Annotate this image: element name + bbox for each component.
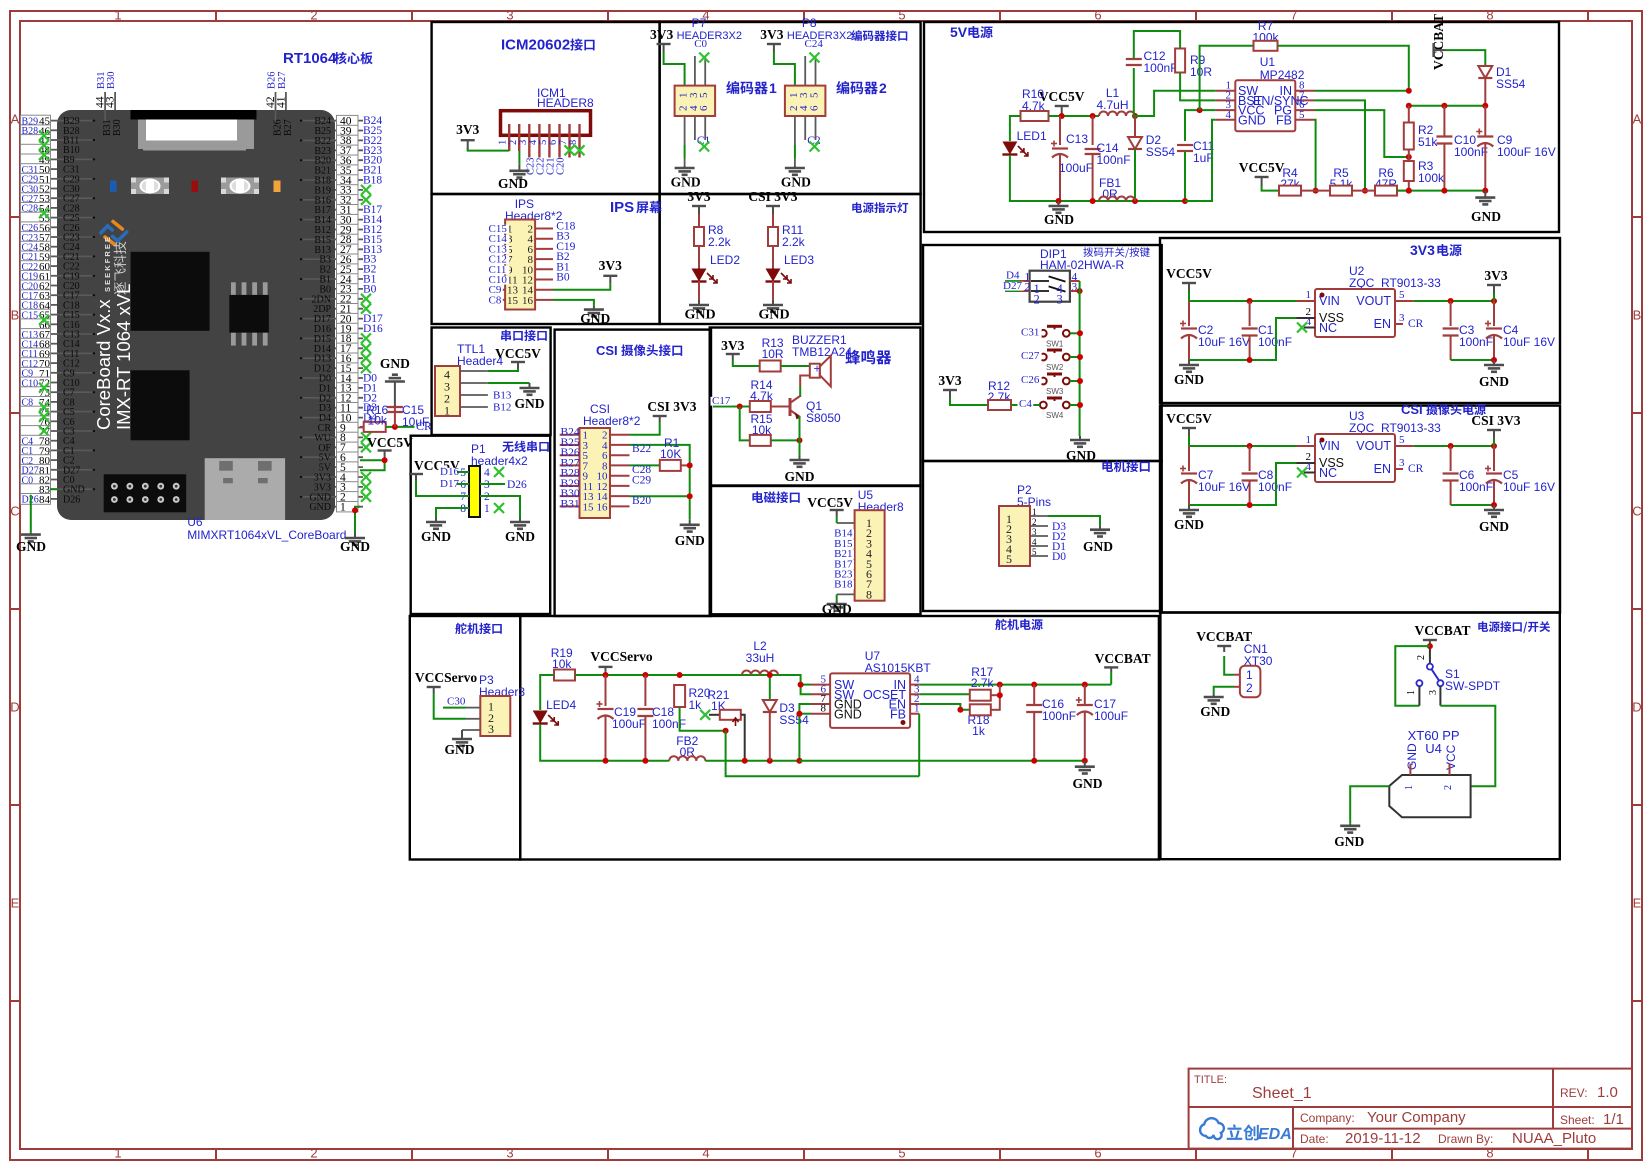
svg-text:10k: 10k	[368, 414, 388, 428]
svg-text:C20: C20	[555, 157, 566, 175]
capacitor C3	[1450, 301, 1452, 326]
wire GND pin4 to rail	[1185, 120, 1216, 201]
svg-text:1.0: 1.0	[1597, 1084, 1618, 1101]
wire EN/SYNC pin7	[1315, 100, 1366, 190]
wire P1 pin2 to ground	[480, 496, 520, 518]
svg-text:2.2k: 2.2k	[708, 235, 732, 249]
U6 top pins 42 41 B26 B27	[275, 110, 277, 121]
svg-text:GND: GND	[1405, 743, 1419, 770]
svg-text:C26: C26	[1021, 374, 1040, 386]
svg-text:C31: C31	[1021, 326, 1039, 338]
svg-text:100nF: 100nF	[1042, 709, 1076, 723]
svg-text:3: 3	[1399, 457, 1405, 469]
title power indicator	[852, 202, 908, 213]
wire TTL1 pin4 to VCC5V	[488, 368, 518, 371]
svg-text:GND: GND	[498, 176, 528, 191]
title encoder interface	[851, 30, 907, 41]
svg-text:D26: D26	[507, 479, 527, 491]
svg-text:B13: B13	[493, 390, 512, 402]
ground DIP bus	[1079, 436, 1081, 440]
svg-text:CSI 3V3: CSI 3V3	[647, 399, 696, 414]
net label B13	[492, 391, 514, 400]
svg-text:100uF: 100uF	[1094, 709, 1128, 723]
svg-text:5: 5	[1006, 552, 1012, 566]
svg-text:B18: B18	[363, 175, 382, 187]
svg-text:VCC5V: VCC5V	[367, 435, 413, 450]
svg-text:VCCBAT: VCCBAT	[1431, 14, 1446, 70]
net label D4 pin1	[1005, 280, 1021, 282]
capacitor C8	[1249, 446, 1251, 471]
svg-text:8: 8	[821, 703, 827, 715]
svg-text:U4: U4	[1425, 741, 1442, 756]
svg-text:RT1064: RT1064	[283, 50, 337, 67]
svg-text:2.2k: 2.2k	[782, 235, 806, 249]
svg-text:EN: EN	[1374, 462, 1391, 476]
resistor R2 51k	[1404, 123, 1414, 150]
section box buzzer	[710, 328, 921, 486]
svg-text:1: 1	[1406, 690, 1417, 695]
wire VSS to bottom rail	[1189, 463, 1297, 505]
svg-text:GND: GND	[781, 175, 811, 190]
svg-text:D: D	[1632, 700, 1641, 715]
wire S1 pin1 loop to VCCBAT	[1395, 646, 1430, 706]
svg-text:D0: D0	[1052, 551, 1066, 563]
svg-text:100k: 100k	[1418, 171, 1445, 185]
wire bottom right rail U3	[1451, 504, 1494, 506]
capacitor C1	[1249, 301, 1251, 326]
svg-text:3V3: 3V3	[687, 189, 710, 204]
svg-text:GND: GND	[834, 708, 862, 722]
ground at 5V bottom rail	[1059, 200, 1186, 202]
section box motor	[923, 461, 1162, 611]
svg-text:LED2: LED2	[710, 253, 740, 267]
svg-text:ICM20602: ICM20602	[501, 37, 570, 54]
svg-text:1: 1	[340, 502, 346, 514]
svg-text:1: 1	[769, 80, 777, 96]
wire SW1 right	[1070, 332, 1080, 334]
capacitor C16 100nF	[1033, 685, 1035, 705]
no-connect X bottom P7	[699, 142, 709, 152]
net label B12	[492, 403, 514, 412]
svg-text:Your Company: Your Company	[1367, 1109, 1466, 1126]
svg-text:GND: GND	[340, 539, 370, 554]
svg-text:2: 2	[310, 8, 317, 23]
svg-text:B: B	[1633, 308, 1642, 323]
svg-text:10uF 16V: 10uF 16V	[1503, 335, 1555, 349]
encoder label 1	[726, 81, 768, 94]
capacitor C19 100uF	[605, 675, 607, 706]
net label D26	[480, 483, 505, 485]
wire VCCBAT to CN1 pin1	[1224, 656, 1234, 675]
net label D16	[440, 471, 469, 473]
capacitor C17 100uF	[1084, 685, 1086, 705]
svg-text:GND: GND	[580, 311, 610, 326]
svg-text:VOUT: VOUT	[1356, 439, 1391, 453]
wire IPS pin14 to 3V3	[553, 284, 610, 290]
svg-text:100uF 16V: 100uF 16V	[1497, 145, 1556, 159]
title DIP switch/keys	[1083, 247, 1149, 258]
LED LED3	[772, 246, 774, 269]
svg-text:GND: GND	[505, 529, 535, 544]
section box 5V power	[924, 22, 1559, 232]
title EM interface	[752, 491, 799, 503]
svg-text:2: 2	[1032, 517, 1037, 527]
wires below P7	[684, 116, 686, 145]
svg-text:GND: GND	[1066, 448, 1096, 463]
ground left U2	[1188, 360, 1190, 365]
section box power switch	[1160, 612, 1559, 859]
svg-text:CoreBoard Vx.x: CoreBoard Vx.x	[93, 299, 114, 430]
diode D1 SS54	[1446, 50, 1485, 65]
wire SW2 right	[1070, 356, 1080, 358]
net label C27	[1020, 356, 1040, 358]
svg-text:GND: GND	[445, 742, 475, 757]
svg-text:1: 1	[1032, 507, 1037, 517]
title power connector/switch	[1478, 621, 1550, 633]
svg-text:ZQC_RT9013-33: ZQC_RT9013-33	[1349, 276, 1441, 290]
svg-text:4.7uH: 4.7uH	[1096, 98, 1128, 112]
capacitor C5	[1493, 446, 1495, 471]
net labels on IPS left pins	[487, 225, 509, 234]
wire IN pin4 to VCCBAT	[919, 684, 1111, 686]
wire R19 to LED4 branch	[540, 675, 554, 710]
svg-text:EN: EN	[1374, 317, 1391, 331]
push button SW4	[1047, 397, 1062, 400]
resistor R11 2.2k	[772, 214, 774, 227]
svg-text:B18: B18	[834, 579, 853, 591]
section box 3V3 power	[1160, 238, 1560, 403]
section box IPS	[432, 194, 660, 324]
wire CSI pin2 to CSI 3V3	[630, 422, 660, 435]
svg-text:CR: CR	[1408, 463, 1424, 475]
module U6 MIMXRT1064xVL_CoreBoard	[57, 110, 335, 520]
svg-text:C8: C8	[489, 294, 502, 306]
svg-text:1: 1	[114, 1146, 121, 1161]
svg-text:2: 2	[1034, 293, 1040, 307]
capacitor C13 100uF	[1059, 116, 1061, 145]
svg-text:2: 2	[1246, 681, 1253, 695]
svg-text:15: 15	[583, 501, 595, 513]
net label D27 pin2	[1005, 290, 1021, 292]
svg-text:16: 16	[522, 295, 534, 307]
svg-text:5: 5	[898, 8, 905, 23]
resistor R9 10R	[1175, 49, 1185, 73]
svg-text:LED1: LED1	[1017, 129, 1047, 143]
no-connect X top right pin P7	[699, 53, 709, 63]
svg-text:C29: C29	[632, 475, 651, 487]
svg-text:B22: B22	[632, 443, 651, 455]
wire PG pin6	[1315, 110, 1409, 157]
svg-text:HEADER3X2: HEADER3X2	[677, 30, 742, 42]
wire VCC5V to P1 pin7	[416, 480, 469, 496]
EasyEDA logo	[1200, 1118, 1224, 1139]
svg-text:VCC5V: VCC5V	[495, 346, 541, 361]
svg-text:3V3: 3V3	[760, 27, 783, 42]
title servo power	[995, 619, 1043, 631]
svg-text:43: 43	[105, 96, 117, 108]
resistor R16 10k	[360, 426, 364, 428]
svg-text:1uF: 1uF	[1193, 151, 1214, 165]
svg-text:E: E	[1633, 896, 1642, 911]
no-connect X on ICM pins 7-8	[565, 145, 575, 155]
ground at C9	[1484, 191, 1486, 198]
svg-text:U6: U6	[187, 515, 203, 529]
svg-text:10uF 16V: 10uF 16V	[1503, 480, 1555, 494]
wire SW3 right	[1070, 380, 1080, 382]
svg-text:GND: GND	[758, 308, 789, 323]
U6 top pins 44 43 B31 B30	[104, 110, 106, 121]
svg-text:NC: NC	[1319, 321, 1337, 335]
svg-text:C: C	[1632, 504, 1641, 519]
svg-text:C0: C0	[694, 38, 707, 50]
wire CN1 pin2 to ground	[1234, 686, 1240, 688]
svg-text:D27: D27	[1003, 280, 1022, 292]
wire S1 pin3 to XT60 VCC	[1439, 686, 1441, 706]
svg-text:CR: CR	[1408, 318, 1424, 330]
svg-text:3: 3	[1428, 690, 1439, 695]
wire buzzer to Q1 collector	[800, 376, 810, 387]
svg-text:SW-SPDT: SW-SPDT	[1445, 679, 1501, 693]
capacitor C10 100nF	[1443, 106, 1445, 137]
svg-text:3: 3	[488, 722, 494, 736]
svg-text:VCC5V: VCC5V	[1039, 89, 1085, 104]
svg-text:SW3: SW3	[1046, 387, 1064, 396]
svg-text:100nF: 100nF	[1144, 61, 1178, 75]
svg-text:3: 3	[506, 8, 513, 23]
svg-text:E: E	[11, 896, 20, 911]
section box wireless serial	[411, 436, 551, 614]
svg-text:1: 1	[1404, 785, 1415, 790]
svg-text:SW4: SW4	[1046, 411, 1064, 420]
svg-text:5: 5	[1399, 289, 1405, 301]
wire R9 to BST pin2	[1180, 73, 1216, 101]
svg-text:LED3: LED3	[784, 253, 814, 267]
svg-text:VCC5V: VCC5V	[1166, 266, 1212, 281]
wire SW4 right	[1070, 404, 1080, 406]
U6 left pin rows 45-84 with net labels	[50, 120, 57, 122]
svg-text:5: 5	[698, 92, 710, 98]
svg-text:2: 2	[1416, 655, 1427, 660]
svg-text:3: 3	[506, 1146, 513, 1161]
wire servo bottom rail right	[799, 760, 1084, 762]
svg-text:5: 5	[1399, 434, 1405, 446]
svg-text:GND: GND	[1044, 212, 1074, 227]
section box ICM20602	[432, 22, 660, 194]
svg-text:GND: GND	[1174, 372, 1204, 387]
wire 3V3 to P8 pin1	[774, 52, 795, 86]
svg-text:SS54: SS54	[1496, 77, 1526, 91]
svg-text:Date:: Date:	[1300, 1132, 1329, 1146]
svg-text:CSI: CSI	[596, 343, 618, 358]
svg-text:5: 5	[898, 1146, 905, 1161]
svg-text:C24: C24	[805, 38, 824, 50]
ground CSI	[689, 520, 691, 525]
svg-text:GND: GND	[515, 396, 545, 411]
resistor R8 2.2k	[698, 214, 700, 227]
net label C31	[1020, 332, 1040, 334]
svg-text:33uH: 33uH	[746, 651, 775, 665]
svg-text:5: 5	[1032, 547, 1037, 557]
wire 3V3 to P7 pin1	[664, 52, 685, 86]
svg-text:Sheet:: Sheet:	[1560, 1113, 1595, 1127]
section box CSI camera	[555, 330, 711, 616]
svg-text:D: D	[10, 700, 19, 715]
title servo interface	[455, 623, 502, 635]
capacitor C9 100uF 16V	[1484, 106, 1486, 137]
ground servo power	[1084, 761, 1086, 767]
wire VCC pin3 to C11 and R7	[1185, 110, 1216, 141]
svg-text:NUAA_Pluto: NUAA_Pluto	[1512, 1130, 1596, 1147]
net label D17	[440, 483, 469, 485]
wire top rail VCC5V node	[1049, 115, 1100, 117]
wire CSI pin14	[630, 495, 690, 497]
svg-text:S8050: S8050	[806, 411, 841, 425]
wire R7 to IN node	[1278, 46, 1409, 91]
ground right U2	[1493, 360, 1495, 365]
svg-text:A: A	[1633, 112, 1642, 127]
svg-text:6: 6	[1094, 1146, 1101, 1161]
svg-text:IPS: IPS	[610, 199, 634, 216]
svg-text:C17: C17	[712, 395, 731, 407]
svg-text:10uF: 10uF	[402, 415, 429, 429]
svg-text:CSI: CSI	[1401, 402, 1423, 417]
svg-text:P8: P8	[802, 16, 817, 30]
svg-text:B26: B26	[267, 71, 278, 89]
svg-text:VIN: VIN	[1319, 439, 1340, 453]
svg-text:TMB12A24: TMB12A24	[792, 345, 852, 359]
svg-text:1/1: 1/1	[1603, 1111, 1624, 1128]
svg-text:C27: C27	[1021, 350, 1040, 362]
svg-text:GND: GND	[1073, 776, 1103, 791]
svg-text:REV:: REV:	[1560, 1086, 1588, 1100]
svg-text:D17: D17	[440, 478, 459, 490]
net label C30	[443, 707, 466, 709]
svg-text:8: 8	[568, 140, 579, 145]
svg-text:1: 1	[484, 503, 490, 515]
svg-text:1: 1	[1246, 668, 1253, 682]
wire SW node to pin1	[1135, 91, 1216, 116]
svg-text:2: 2	[1443, 785, 1454, 790]
wire bottom rail servo	[606, 760, 670, 762]
svg-text:100nF: 100nF	[1454, 145, 1488, 159]
svg-text:3V3: 3V3	[1410, 242, 1435, 258]
svg-text:4: 4	[1032, 537, 1037, 547]
svg-text:3V3: 3V3	[599, 258, 622, 273]
svg-text:IN: IN	[1280, 84, 1293, 98]
svg-text:6: 6	[809, 105, 821, 111]
svg-text:GND: GND	[684, 308, 715, 323]
wire VOUT rail U3	[1414, 445, 1494, 447]
svg-text:Drawn By:: Drawn By:	[1438, 1132, 1493, 1146]
svg-text:VCCBAT: VCCBAT	[1095, 651, 1151, 666]
svg-text:B27: B27	[277, 71, 288, 89]
svg-text:5: 5	[809, 92, 821, 98]
svg-text:100uF: 100uF	[1059, 161, 1093, 175]
svg-text:SW2: SW2	[1046, 363, 1064, 372]
svg-text:GND: GND	[1238, 114, 1266, 128]
svg-text:GND: GND	[1200, 704, 1230, 719]
net label C17 buzzer	[713, 406, 750, 408]
svg-text:CSI 3V3: CSI 3V3	[1471, 413, 1520, 428]
svg-text:MIMXRT1064xVL_CoreBoard: MIMXRT1064xVL_CoreBoard	[187, 528, 346, 542]
title wireless serial	[502, 441, 549, 452]
svg-text:HEADER8: HEADER8	[537, 96, 594, 110]
svg-text:2: 2	[879, 80, 887, 96]
svg-text:5: 5	[1299, 109, 1305, 121]
svg-text:3: 3	[1399, 312, 1405, 324]
svg-text:VCC5V: VCC5V	[1239, 160, 1285, 175]
svg-text:GND: GND	[1479, 374, 1509, 389]
capacitor C11 1uF	[1177, 144, 1193, 146]
wire FB pin5	[1315, 120, 1316, 191]
svg-text:TITLE:: TITLE:	[1194, 1074, 1227, 1086]
wire Q1 emitter to ground	[799, 417, 802, 456]
wires below P8	[794, 116, 796, 145]
svg-text:6: 6	[698, 105, 710, 111]
svg-text:51k: 51k	[1418, 135, 1438, 149]
wire LED2 to ground	[698, 281, 700, 300]
svg-text:5V: 5V	[950, 24, 968, 40]
svg-text:GND: GND	[1334, 834, 1364, 849]
wire VOUT rail U2	[1414, 300, 1494, 302]
svg-text:10uF 16V: 10uF 16V	[1198, 335, 1250, 349]
capacitor C7	[1188, 446, 1190, 471]
title buzzer	[845, 350, 891, 365]
svg-text:P7: P7	[692, 16, 707, 30]
no-connect X P1 pin4	[494, 467, 504, 477]
svg-text:100uF: 100uF	[612, 717, 646, 731]
svg-text:B0: B0	[556, 272, 570, 284]
svg-text:1: 1	[914, 703, 920, 715]
svg-text:D26: D26	[63, 494, 80, 505]
wire FB pin1 feedback	[918, 714, 920, 777]
capacitor C12 100nF	[1134, 68, 1135, 116]
LED LED2	[698, 246, 700, 269]
svg-text:SS54: SS54	[1146, 145, 1176, 159]
svg-text:Header8*2: Header8*2	[583, 414, 641, 428]
wire R20 to feedback	[680, 707, 726, 731]
svg-text:VCC5V: VCC5V	[1166, 411, 1212, 426]
svg-text:10R: 10R	[762, 347, 784, 361]
wire U6 left pin83 GND to ground	[50, 488, 57, 490]
svg-text:CSI 3V3: CSI 3V3	[748, 189, 797, 204]
wire XT60 GND to ground	[1350, 786, 1389, 824]
wire top rail servo	[575, 674, 801, 676]
ground P7	[684, 166, 686, 168]
svg-text:16: 16	[597, 501, 609, 513]
no-connect X bottom P8	[810, 142, 820, 152]
wire ICM pin2 to ground	[518, 151, 520, 165]
svg-text:2: 2	[310, 1146, 317, 1161]
wire VIN rail	[1189, 436, 1297, 446]
svg-text:VCCServo: VCCServo	[590, 649, 652, 664]
section box servo power	[520, 616, 1159, 860]
wire GND pin1 to ground	[355, 507, 360, 533]
svg-text:B20: B20	[632, 495, 651, 507]
svg-text:B12: B12	[493, 402, 511, 414]
svg-text:GND: GND	[1083, 539, 1113, 554]
svg-text:4: 4	[484, 467, 490, 479]
push button SW1	[1047, 325, 1062, 328]
svg-text:10R: 10R	[1190, 65, 1212, 79]
diode D2 SS54	[1132, 113, 1138, 119]
svg-text:GND: GND	[16, 539, 46, 554]
svg-text:1: 1	[1306, 434, 1312, 446]
svg-text:FB: FB	[890, 708, 906, 722]
wire IPS pin16 to ground	[553, 300, 594, 306]
U6 right pin rows 40-1 with net labels	[335, 120, 363, 122]
svg-text:GND: GND	[671, 175, 701, 190]
